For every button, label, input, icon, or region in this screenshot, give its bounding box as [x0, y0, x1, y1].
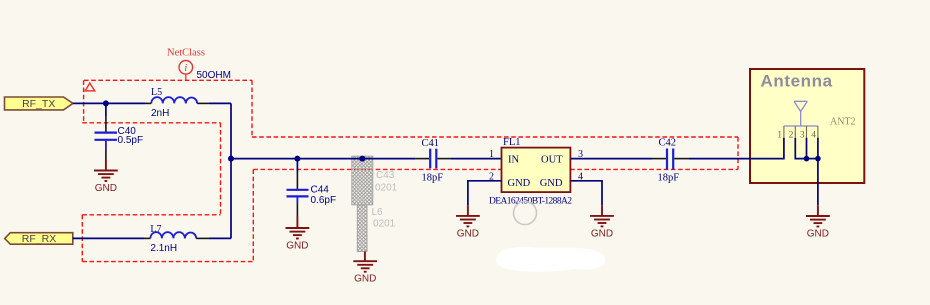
- junction at trunk/bus: [228, 156, 234, 162]
- svg-text:DEA162450BT-1288A2: DEA162450BT-1288A2: [489, 196, 572, 206]
- wire L7 to trunk: [209, 237, 231, 239]
- svg-text:C41: C41: [422, 138, 440, 149]
- masked inductor L6 (crosshatch): [357, 205, 395, 252]
- capacitor C41: [416, 138, 450, 184]
- ground under antenna: [806, 205, 830, 226]
- svg-text:3: 3: [800, 130, 805, 140]
- svg-text:GND: GND: [95, 183, 117, 194]
- svg-text:ANT2: ANT2: [830, 117, 856, 128]
- svg-text:50OHM: 50OHM: [197, 70, 231, 81]
- capacitor C40: [95, 103, 144, 159]
- antenna pin4 wire: [817, 138, 819, 159]
- svg-text:GND: GND: [508, 178, 531, 189]
- svg-text:Antenna: Antenna: [761, 72, 833, 91]
- ground at FL1 pin4: [590, 205, 614, 226]
- wire L5 to corner: [209, 102, 231, 104]
- svg-text:0.5pF: 0.5pF: [118, 135, 144, 146]
- antenna pin3 wire: [806, 138, 808, 159]
- wire FL1 pin4 to ground: [570, 181, 602, 205]
- ground under L6: [353, 252, 377, 272]
- wire main bus: [231, 158, 416, 160]
- wire RF_TX to junction: [73, 102, 145, 104]
- wire antenna to ground: [817, 159, 819, 206]
- FL1 pin 2 number: [489, 171, 494, 182]
- wire pin3 to pin4: [807, 158, 818, 160]
- junction at C43: [359, 156, 365, 162]
- svg-text:L5: L5: [151, 87, 162, 98]
- svg-text:0201: 0201: [373, 219, 396, 230]
- masked capacitor C43 (crosshatch): [352, 156, 398, 205]
- net class name 50OHM: [197, 70, 231, 81]
- port RF_TX: [5, 97, 73, 110]
- svg-text:4: 4: [811, 130, 816, 140]
- antenna pin2 wire: [795, 138, 806, 159]
- svg-text:0201: 0201: [375, 183, 398, 194]
- svg-text:GND: GND: [457, 228, 479, 239]
- svg-text:GND: GND: [540, 178, 563, 189]
- svg-text:RF_TX: RF_TX: [22, 98, 55, 110]
- FL1 pin 3 number: [578, 149, 583, 160]
- wire C41 to FL1: [450, 158, 501, 160]
- wire FL1 pin2 to ground: [468, 181, 502, 205]
- junction at C44: [294, 156, 300, 162]
- compile mask triangle: [85, 83, 95, 91]
- svg-text:IN: IN: [508, 154, 519, 165]
- inductor L7: [144, 224, 209, 254]
- netclass blanket dashed outline: [82, 80, 738, 261]
- annotation circle: [514, 202, 537, 225]
- junction on TX wire: [103, 100, 109, 106]
- ground under C40: [94, 160, 118, 182]
- svg-text:18pF: 18pF: [422, 173, 444, 184]
- NetClass directive: [167, 48, 205, 81]
- svg-text:C44: C44: [311, 185, 330, 196]
- svg-text:RF_RX: RF_RX: [22, 233, 56, 245]
- svg-text:1: 1: [489, 149, 494, 160]
- svg-text:GND: GND: [807, 229, 829, 240]
- wire C42 to antenna pin1: [689, 138, 784, 159]
- svg-text:GND: GND: [354, 274, 376, 285]
- capacitor C42: [652, 137, 689, 183]
- FL1 pin 1 number: [489, 149, 494, 160]
- svg-text:L7: L7: [150, 224, 161, 235]
- antenna pins 1-4: [784, 126, 818, 138]
- svg-text:i: i: [184, 63, 187, 74]
- svg-text:C43: C43: [376, 170, 395, 181]
- svg-text:L6: L6: [372, 207, 384, 218]
- wire RF_RX to L7: [73, 237, 144, 239]
- ground under C44: [286, 217, 310, 239]
- svg-text:NetClass: NetClass: [167, 48, 205, 59]
- svg-text:18pF: 18pF: [658, 172, 680, 183]
- capacitor C44: [287, 159, 337, 217]
- antenna symbol: [784, 101, 818, 126]
- svg-text:1: 1: [777, 130, 782, 140]
- antenna module box: [750, 69, 864, 183]
- svg-text:0.6pF: 0.6pF: [311, 195, 337, 206]
- svg-text:FL1: FL1: [503, 137, 521, 148]
- wire FL1 pin3 to C42: [570, 158, 652, 160]
- svg-text:2: 2: [789, 130, 794, 140]
- ground at FL1 pin2: [456, 205, 480, 226]
- junction at antenna pin3: [804, 156, 810, 162]
- svg-text:OUT: OUT: [541, 154, 563, 165]
- filter FL1: [489, 137, 572, 206]
- svg-text:GND: GND: [591, 228, 613, 239]
- svg-text:2.1nH: 2.1nH: [150, 243, 177, 254]
- svg-text:2nH: 2nH: [151, 108, 169, 119]
- svg-text:GND: GND: [286, 241, 308, 252]
- svg-text:C42: C42: [659, 137, 677, 148]
- junction at antenna pin4: [815, 156, 821, 162]
- inductor L5: [145, 87, 209, 119]
- wire vertical trunk: [230, 103, 232, 238]
- white mark blob: [496, 247, 605, 272]
- FL1 pin 4 number: [578, 171, 583, 182]
- port RF_RX: [5, 233, 73, 245]
